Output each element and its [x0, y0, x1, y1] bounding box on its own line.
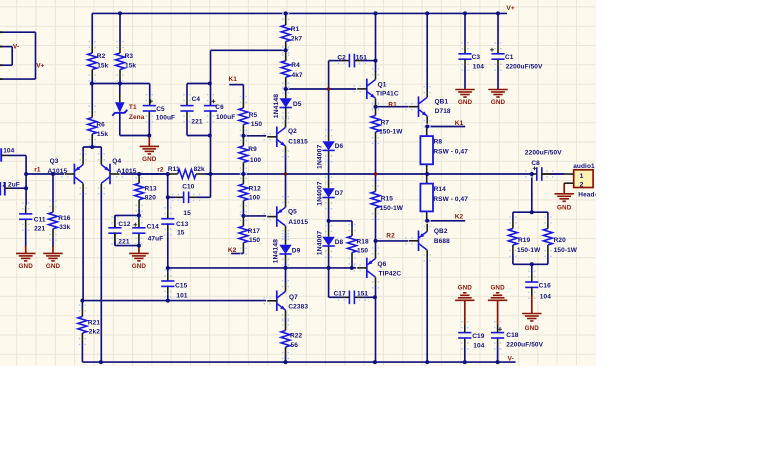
- svg-text:V+: V+: [506, 5, 514, 12]
- svg-text:R1: R1: [388, 101, 397, 108]
- svg-text:221: 221: [118, 238, 129, 245]
- wire C3 to gnd: [464, 59, 466, 89]
- svg-text:R6: R6: [96, 122, 105, 129]
- svg-text:C14: C14: [147, 223, 160, 230]
- svg-text:100uF: 100uF: [156, 114, 175, 121]
- transistor Q4: [98, 153, 124, 194]
- svg-text:150: 150: [251, 121, 262, 128]
- ground connector: [555, 194, 574, 212]
- transistor Q7: [264, 280, 290, 321]
- svg-text:R2: R2: [97, 53, 106, 60]
- svg-text:15k: 15k: [97, 62, 108, 69]
- svg-text:C1: C1: [505, 54, 514, 61]
- wire V- rail: [82, 361, 515, 363]
- resistor R6: [88, 84, 109, 148]
- wire Q2 emitter to rail: [285, 154, 287, 174]
- wire QB1 emitter / K1: [427, 126, 465, 128]
- resistor R4: [281, 49, 303, 90]
- wire diode column D7-D8: [328, 198, 330, 237]
- svg-text:V-: V-: [508, 355, 514, 362]
- svg-text:R13: R13: [145, 186, 158, 193]
- svg-text:Q6: Q6: [378, 261, 387, 268]
- resistor R3: [116, 13, 137, 83]
- svg-text:15: 15: [177, 229, 185, 236]
- svg-text:Q2: Q2: [288, 128, 297, 135]
- wire C5 top lead: [149, 84, 151, 106]
- wire R4 to Q1 base: [286, 88, 357, 90]
- capacitor input 2.2uF: [0, 182, 20, 196]
- label 1N4148 of D9: [273, 239, 280, 264]
- svg-text:1N4148: 1N4148: [273, 94, 280, 119]
- svg-text:R5: R5: [249, 112, 258, 119]
- svg-text:C11: C11: [34, 216, 46, 223]
- node r2 label: [157, 166, 164, 173]
- svg-text:K1: K1: [455, 120, 464, 127]
- connector audio1: [551, 163, 601, 198]
- wire Q7 collector: [285, 268, 287, 284]
- svg-text:C6: C6: [215, 104, 224, 111]
- capacitor C16: [525, 270, 551, 300]
- svg-text:GND: GND: [46, 263, 61, 270]
- svg-text:R4: R4: [291, 62, 300, 69]
- svg-text:C18: C18: [506, 332, 519, 339]
- svg-text:221: 221: [191, 118, 202, 125]
- capacitor C11: [19, 202, 46, 247]
- node r1 label: [34, 166, 41, 173]
- wire C18 gnd lead: [497, 312, 499, 333]
- svg-text:Q7: Q7: [289, 294, 298, 301]
- capacitor C14: [132, 215, 163, 245]
- capacitor C13: [161, 207, 188, 236]
- resistor R20: [543, 212, 577, 264]
- svg-text:C4: C4: [192, 96, 201, 103]
- resistor R5: [239, 85, 262, 137]
- svg-text:1N4007: 1N4007: [316, 144, 323, 169]
- svg-text:R19: R19: [518, 237, 531, 244]
- ground R16: [43, 246, 62, 271]
- wire bottom rail (bias): [168, 267, 356, 269]
- wire diff emitter tent: [83, 147, 101, 157]
- svg-text:104: 104: [473, 64, 484, 71]
- svg-text:C2: C2: [337, 55, 346, 62]
- svg-text:V-: V-: [13, 44, 19, 51]
- wire C13 to bottom rail: [167, 223, 169, 268]
- wire C17 left pin: [341, 296, 349, 298]
- svg-text:QB2: QB2: [434, 228, 448, 235]
- svg-text:C5: C5: [156, 106, 165, 113]
- svg-text:RSW - 0,47: RSW - 0,47: [433, 149, 468, 156]
- capacitor C15: [161, 269, 188, 299]
- svg-text:104: 104: [540, 293, 551, 300]
- wire C4/C6 column lower: [210, 110, 212, 174]
- wire Q3 collector drop: [82, 191, 84, 301]
- svg-text:1N4007: 1N4007: [316, 231, 323, 256]
- svg-text:D6: D6: [335, 143, 344, 150]
- svg-text:15k: 15k: [125, 62, 136, 69]
- ground C1: [488, 90, 507, 107]
- wire R2/R3 bottom bus: [92, 83, 150, 85]
- wire zener bottom: [120, 113, 150, 136]
- svg-text:D5: D5: [293, 101, 302, 108]
- svg-text:4k7: 4k7: [292, 72, 303, 79]
- svg-text:2200uF/50V: 2200uF/50V: [525, 149, 562, 156]
- svg-text:K2: K2: [455, 213, 464, 220]
- svg-text:QB1: QB1: [435, 99, 449, 106]
- svg-text:C8: C8: [531, 160, 540, 167]
- node V+ label box: [36, 63, 44, 70]
- capacitor C10: [168, 183, 211, 217]
- svg-text:GND: GND: [490, 285, 505, 292]
- wire C8 right pin: [541, 173, 551, 175]
- svg-text:C1815: C1815: [288, 139, 308, 146]
- wire Q1 emitter to QB1 base: [376, 106, 409, 108]
- svg-text:R14: R14: [434, 186, 447, 193]
- wire diode column D5-D6: [328, 89, 330, 141]
- svg-text:R17: R17: [248, 228, 261, 235]
- resistor R12: [239, 172, 261, 216]
- wire C10 loop left: [167, 174, 169, 197]
- node V- label box: [13, 44, 19, 51]
- svg-text:2200uF/50V: 2200uF/50V: [506, 341, 543, 348]
- wire diode column D8-rail: [328, 246, 330, 268]
- transistor Q6: [354, 247, 380, 288]
- ground C18 inverted: [488, 285, 507, 312]
- diode D6: [322, 129, 334, 162]
- svg-text:R16: R16: [58, 215, 71, 222]
- svg-text:D7: D7: [335, 190, 344, 197]
- wire Q6 emitter feed: [375, 241, 377, 251]
- svg-text:C2383: C2383: [288, 303, 308, 310]
- svg-text:GND: GND: [132, 263, 147, 270]
- capacitor C12: [108, 215, 131, 245]
- resistor R21: [78, 301, 101, 353]
- capacitor C18: [491, 321, 544, 362]
- svg-text:T1: T1: [129, 104, 137, 111]
- svg-text:Zena: Zena: [129, 114, 145, 121]
- wire D9 to bottom rail: [285, 254, 287, 268]
- capacitor C3: [458, 13, 484, 70]
- wire C4/C6 column upper: [210, 84, 212, 106]
- ground zener/C5: [140, 136, 159, 163]
- resistor R7: [371, 103, 403, 174]
- wire C16 feed: [531, 264, 533, 282]
- resistor R16: [49, 174, 71, 247]
- transistor Q3: [61, 153, 87, 194]
- resistor R13: [135, 171, 157, 215]
- wire R15 bottom to QB2 base: [376, 240, 409, 242]
- wire QB2 collector drop: [426, 258, 428, 362]
- wire C4 bottom branch: [187, 135, 210, 137]
- svg-text:47uF: 47uF: [148, 236, 164, 243]
- transistor QB2: [405, 220, 431, 261]
- resistor R18: [348, 224, 370, 268]
- wire QB1 collector drop: [426, 13, 428, 89]
- label 1N4148 of D5: [273, 94, 280, 119]
- svg-text:V+: V+: [36, 63, 44, 70]
- svg-text:150: 150: [357, 247, 368, 254]
- wire diode column top: [328, 61, 330, 89]
- svg-text:D718: D718: [435, 108, 451, 115]
- wire input mid vertical: [25, 174, 27, 205]
- svg-text:R15: R15: [381, 195, 394, 202]
- resistor R17: [239, 214, 261, 255]
- node K1 at QB1: [455, 120, 464, 127]
- svg-text:C12: C12: [118, 221, 131, 228]
- capacitor C5: [143, 94, 175, 136]
- resistor R11: [139, 166, 210, 178]
- wire input 2.2uF lead: [12, 187, 26, 189]
- wire C4 top branch: [187, 83, 210, 85]
- svg-text:104: 104: [3, 148, 14, 155]
- white margin right: [596, 0, 768, 460]
- svg-text:GND: GND: [458, 99, 473, 106]
- capacitor C2: [329, 54, 376, 68]
- node K1 stub near C4: [229, 76, 244, 84]
- wire power box inner: [0, 47, 12, 66]
- svg-text:D9: D9: [292, 248, 301, 255]
- wire Q5 emitter feed: [285, 174, 287, 200]
- svg-text:820: 820: [145, 195, 156, 202]
- wire power box outer: [0, 32, 36, 79]
- svg-text:56: 56: [291, 342, 299, 349]
- ground C19 inverted: [455, 285, 474, 312]
- capacitor C4: [180, 84, 202, 136]
- svg-text:Q5: Q5: [288, 208, 297, 215]
- svg-text:82k: 82k: [194, 166, 205, 173]
- svg-text:C15: C15: [175, 283, 188, 290]
- wire R18 branch: [329, 221, 352, 228]
- svg-text:2 2uF: 2 2uF: [2, 182, 19, 189]
- svg-text:150-1W: 150-1W: [554, 247, 578, 254]
- schematic sheet background: [0, 0, 596, 366]
- svg-text:C10: C10: [182, 183, 195, 190]
- resistor R14: [420, 174, 468, 221]
- zener T1: [112, 102, 127, 116]
- diode D9: [279, 233, 291, 266]
- svg-text:1: 1: [580, 173, 584, 180]
- svg-text:2: 2: [580, 182, 584, 189]
- svg-text:C17: C17: [334, 290, 347, 297]
- wire Q5 collector to D9: [285, 234, 287, 245]
- svg-text:R7: R7: [381, 119, 390, 126]
- svg-text:RSW - 0,47: RSW - 0,47: [433, 196, 468, 203]
- ground C3: [455, 90, 474, 107]
- svg-text:1N4148: 1N4148: [273, 239, 280, 264]
- svg-text:Q3: Q3: [50, 158, 59, 165]
- svg-text:GND: GND: [19, 263, 34, 270]
- svg-text:K1: K1: [229, 76, 238, 83]
- svg-text:Q1: Q1: [378, 82, 387, 89]
- svg-text:2200uF/50V: 2200uF/50V: [506, 64, 543, 71]
- svg-text:100uF: 100uF: [216, 114, 235, 121]
- svg-text:100: 100: [249, 194, 260, 201]
- svg-text:R11: R11: [168, 166, 180, 173]
- capacitor C6: [204, 94, 235, 123]
- svg-text:GND: GND: [142, 156, 157, 163]
- capacitor C17: [334, 290, 375, 304]
- wire Q4 collector drop: [100, 191, 102, 362]
- capacitor input 104: [1, 148, 14, 162]
- diode D8: [322, 225, 334, 258]
- diode D5: [280, 86, 292, 119]
- resistor R22: [281, 318, 303, 362]
- wire C17 branch: [329, 268, 342, 297]
- wire connector pin2 gnd stem: [563, 183, 565, 194]
- svg-text:R22: R22: [290, 332, 303, 339]
- svg-text:150-1W: 150-1W: [379, 129, 403, 136]
- svg-text:151: 151: [356, 55, 367, 62]
- svg-text:C19: C19: [472, 333, 485, 340]
- svg-text:A1015: A1015: [117, 168, 137, 175]
- svg-text:R12: R12: [249, 186, 262, 193]
- node R1 net label: [388, 101, 397, 108]
- svg-text:GND: GND: [525, 325, 540, 332]
- wire V+ top rail: [92, 12, 507, 14]
- resistor R15: [371, 174, 404, 241]
- svg-text:D8: D8: [335, 239, 344, 246]
- svg-text:R18: R18: [357, 238, 370, 245]
- svg-text:151: 151: [357, 290, 368, 297]
- transistor Q2: [264, 116, 290, 157]
- wire R1-R4 junction to C4/C6 column: [211, 50, 286, 83]
- wire C19 gnd lead: [464, 312, 466, 333]
- label 1N4007 of D6: [316, 144, 323, 169]
- wire C15 to lower rail: [167, 286, 169, 301]
- node V- label right: [508, 355, 514, 362]
- wire Q3 base: [26, 173, 64, 175]
- svg-text:C3: C3: [472, 54, 481, 61]
- svg-text:2k2: 2k2: [89, 329, 100, 336]
- wire C8 left pin: [533, 173, 537, 175]
- wire C13 column: [167, 197, 169, 218]
- diode D7: [322, 176, 334, 209]
- svg-text:15k: 15k: [97, 131, 108, 138]
- resistor R1: [281, 13, 302, 54]
- svg-text:C16: C16: [539, 282, 552, 289]
- wire Q2 base: [243, 135, 266, 137]
- wire Q1 collector drop: [375, 13, 377, 72]
- svg-text:TIP42C: TIP42C: [379, 271, 402, 278]
- node V+ label top right: [506, 5, 514, 12]
- ground C12/C14: [129, 246, 148, 270]
- wire R21 bottom corner: [81, 353, 83, 363]
- resistor R8: [420, 127, 468, 175]
- wire input top (104 cap): [8, 155, 26, 174]
- ground C16: [522, 296, 541, 332]
- junction dots crossing: [284, 87, 377, 175]
- svg-text:101: 101: [176, 292, 187, 299]
- wire C1 to gnd: [497, 59, 499, 89]
- wire K2 stub under R17: [228, 247, 244, 254]
- svg-text:R9: R9: [248, 146, 257, 153]
- wire C10 loop right: [210, 174, 212, 197]
- wire C15 branch: [167, 268, 169, 281]
- wire C12 top branch: [115, 215, 139, 227]
- wire lower-mid rail: [82, 300, 266, 302]
- capacitor C1: [490, 13, 543, 70]
- svg-text:r2: r2: [157, 166, 164, 173]
- svg-text:GND: GND: [491, 99, 506, 106]
- transistor QB1: [405, 86, 431, 127]
- svg-text:150-1W: 150-1W: [517, 247, 541, 254]
- svg-text:R20: R20: [554, 237, 567, 244]
- svg-text:C13: C13: [176, 221, 189, 228]
- svg-text:K2: K2: [228, 247, 237, 254]
- wire R19/R20 top: [513, 211, 548, 213]
- svg-text:R2: R2: [386, 233, 395, 240]
- svg-text:R1: R1: [291, 26, 300, 33]
- svg-text:A1015: A1015: [288, 219, 308, 226]
- svg-text:100: 100: [250, 157, 261, 164]
- svg-text:15: 15: [183, 210, 191, 217]
- svg-text:150-1W: 150-1W: [380, 205, 404, 212]
- svg-text:150: 150: [249, 237, 260, 244]
- wire diode column D6-D7: [328, 150, 330, 188]
- wire output node drop: [531, 174, 533, 212]
- svg-text:R3: R3: [125, 53, 134, 60]
- svg-text:audio1: audio1: [573, 163, 595, 170]
- wire Q6 collector drop: [375, 285, 377, 362]
- wire C12 bottom branch: [115, 232, 139, 245]
- wire Q4 base to R11: [121, 173, 169, 175]
- svg-text:A1015: A1015: [48, 168, 68, 175]
- svg-text:104: 104: [473, 343, 484, 350]
- svg-text:1N4007: 1N4007: [316, 181, 323, 206]
- capacitor C8: [525, 149, 564, 180]
- wire Q5 base: [243, 215, 266, 217]
- svg-text:GND: GND: [557, 205, 572, 212]
- node R2 net label: [386, 233, 395, 240]
- svg-text:Q4: Q4: [112, 158, 121, 165]
- resistor R9: [239, 134, 262, 175]
- svg-text:221: 221: [34, 226, 45, 233]
- wire R19/R20 bottom: [513, 263, 548, 265]
- svg-text:GND: GND: [458, 285, 473, 292]
- svg-text:33k: 33k: [59, 224, 70, 231]
- transistor Q5: [264, 196, 290, 237]
- svg-text:r1: r1: [34, 166, 41, 173]
- capacitor C19: [458, 321, 485, 362]
- svg-text:R8: R8: [434, 138, 443, 145]
- white margin bottom: [0, 366, 768, 460]
- transistor Q1: [354, 68, 380, 109]
- label 1N4007 of D8: [316, 231, 323, 256]
- label 1N4007 of D7: [316, 181, 323, 206]
- wire C16 gnd lead: [531, 287, 533, 296]
- ground C11: [16, 246, 35, 270]
- svg-text:TIP41C: TIP41C: [376, 91, 399, 98]
- svg-text:2k7: 2k7: [291, 35, 302, 42]
- svg-text:R21: R21: [88, 319, 101, 326]
- resistor R2: [88, 13, 109, 83]
- resistor R19: [508, 212, 541, 264]
- svg-text:B688: B688: [434, 238, 450, 245]
- wire mid rail (output): [206, 173, 533, 175]
- wire K2 at QB2: [427, 213, 465, 220]
